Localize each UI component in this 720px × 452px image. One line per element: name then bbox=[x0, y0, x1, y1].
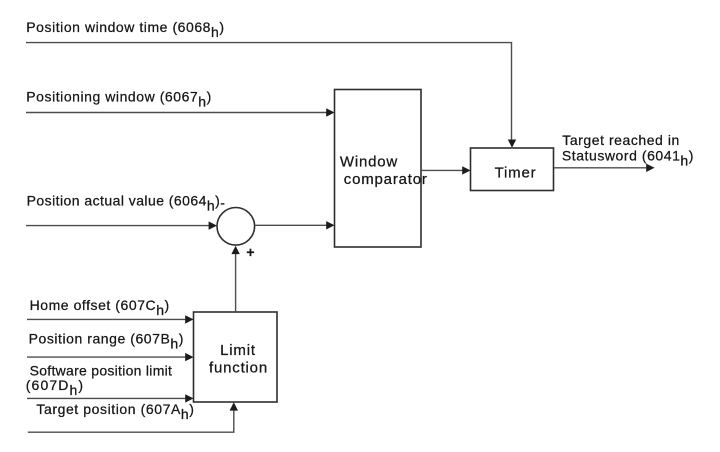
arrow position range bbox=[185, 353, 193, 361]
wire: position actual value to circle bbox=[26, 225, 210, 227]
box Window comparator bbox=[335, 90, 428, 248]
arrow into timer left bbox=[462, 166, 470, 174]
arrow output bbox=[646, 164, 654, 172]
arrow home offset bbox=[185, 315, 193, 323]
svg-text:function: function bbox=[209, 359, 268, 376]
wire: position window time to timer top bbox=[26, 43, 512, 142]
wire: comparator to timer bbox=[421, 169, 464, 171]
svg-text:Target reached in: Target reached in bbox=[562, 132, 680, 148]
wire: target position bbox=[28, 409, 234, 432]
wire: positioning window to comparator bbox=[26, 112, 327, 114]
summing junction circle bbox=[217, 208, 255, 246]
arrow into comparator (sum) bbox=[326, 221, 334, 229]
wire: timer output bbox=[554, 167, 647, 169]
wire: circle to comparator bbox=[255, 224, 327, 226]
wire: limit function to circle bbox=[235, 252, 237, 312]
arrow into circle left bbox=[209, 221, 217, 229]
wire: position range bbox=[27, 356, 187, 358]
svg-text:Limit: Limit bbox=[220, 342, 256, 359]
svg-text:Timer: Timer bbox=[495, 165, 537, 182]
arrow into limit function bottom bbox=[230, 402, 238, 410]
svg-text:comparator: comparator bbox=[344, 171, 428, 188]
box Timer bbox=[471, 148, 554, 191]
wire: home offset bbox=[27, 318, 187, 320]
arrow into circle bottom bbox=[231, 246, 239, 254]
box Limit function bbox=[194, 312, 278, 402]
arrow into timer top bbox=[508, 140, 516, 148]
arrow into comparator (positioning window) bbox=[326, 108, 334, 116]
arrow software position limit bbox=[185, 394, 193, 402]
svg-text:+: + bbox=[246, 244, 255, 260]
wire: software position limit bbox=[27, 397, 187, 399]
svg-text:Window: Window bbox=[340, 154, 398, 171]
